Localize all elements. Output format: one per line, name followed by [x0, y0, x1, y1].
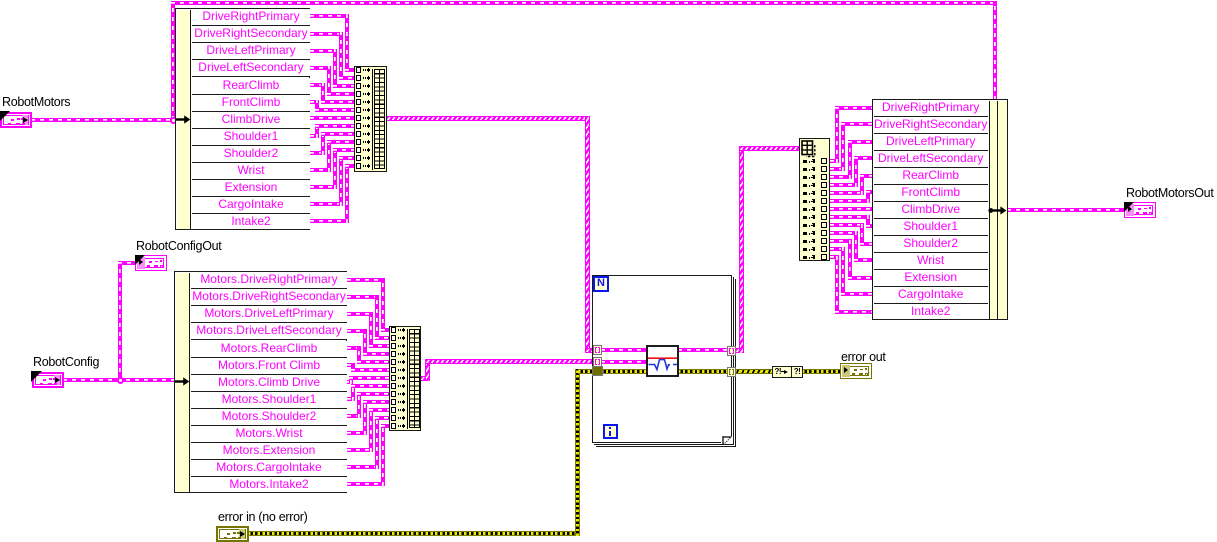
- wire top rail RobotMotors cluster to BundleByName: [171, 1, 997, 5]
- U1 cluster column: [177, 10, 191, 229]
- BN cluster column 1: [989, 101, 998, 319]
- IA row 7: [803, 208, 808, 211]
- U1 row DriveLeftSecondary: [192, 60, 310, 77]
- BN row Intake2: [874, 304, 988, 320]
- for loop count terminal N: [593, 276, 609, 292]
- indicator terminal RobotMotorsOut: [1124, 202, 1156, 218]
- build array node B1: [354, 66, 387, 172]
- wire IndexArray out 11 to Bundle Extension: [830, 239, 852, 243]
- label RobotMotors: [2, 96, 82, 109]
- IA row 5: [803, 192, 808, 195]
- U2 row Motors.Shoulder1: [191, 392, 347, 409]
- auto-index tunnel left 1 (motors array): [593, 345, 602, 355]
- U2 row Motors.Front Climb: [191, 358, 347, 375]
- merge errors node: [772, 366, 792, 378]
- U2 row Motors.DriveLeftPrimary: [191, 306, 347, 323]
- indicator terminal RobotConfigOut: [135, 255, 167, 271]
- U2 row Motors.Extension: [191, 443, 347, 460]
- BN row CargoIntake: [874, 287, 988, 304]
- U2 row Motors.CargoIntake: [191, 460, 347, 477]
- array wire BuildArray2 output to loop: [420, 376, 430, 381]
- wire BundleByName output to RobotMotorsOut: [1007, 208, 1125, 212]
- label error out: [841, 351, 901, 364]
- BN cluster column 2: [998, 101, 1007, 319]
- IA row 11: [803, 240, 808, 243]
- wire IndexArray out 8 to Bundle Shoulder1: [830, 215, 870, 219]
- wire Unbundle1 Shoulder1 to BuildArray1 input 8: [310, 134, 319, 138]
- wire IndexArray out 3 to Bundle DriveLeftPrimary: [830, 175, 852, 179]
- wire Unbundle1 FrontClimb to BuildArray1 input 6: [310, 100, 319, 104]
- wire Unbundle2 Motors.Front Climb to BuildArray2 input 6: [347, 363, 355, 367]
- array wire loop output to IndexArray: [735, 348, 744, 353]
- error wire tunnel to subVI: [601, 369, 647, 374]
- BN row DriveRightSecondary: [874, 117, 988, 134]
- wire Unbundle2 Motors.RearClimb to BuildArray2 input 5: [347, 346, 361, 350]
- BN row FrontClimb: [874, 185, 988, 202]
- U1 row Wrist: [192, 163, 310, 180]
- for loop corner fold: [721, 435, 733, 446]
- wire vertical junction up to RobotConfigOut: [118, 261, 122, 381]
- bundle-by-name node BN (RobotMotorsOut): [872, 99, 1008, 320]
- error input tunnel (solid): [592, 366, 603, 376]
- wire loop tunnel2 to subVI config input: [601, 360, 647, 364]
- U1 row Shoulder1: [192, 129, 310, 146]
- wire Unbundle1 Shoulder2 to BuildArray1 input 9: [310, 151, 325, 155]
- for loop iteration terminal i: [603, 424, 618, 439]
- wire Unbundle1 Intake2 to BuildArray1 input 13: [310, 219, 349, 223]
- wire IndexArray out 7 to Bundle ClimbDrive: [830, 207, 872, 211]
- BN row Shoulder2: [874, 236, 988, 253]
- auto-index tunnel left 2 (config array): [593, 357, 602, 367]
- wire IndexArray out 13 to Bundle Intake2: [830, 255, 839, 259]
- BN row DriveRightPrimary: [874, 100, 988, 117]
- IA row 10: [803, 232, 808, 235]
- U1 row FrontClimb: [192, 95, 310, 112]
- U2 row Motors.Climb Drive: [191, 375, 347, 392]
- wire Unbundle1 Wrist to BuildArray1 input 10: [310, 168, 331, 172]
- wire Unbundle1 DriveLeftSecondary to BuildArray1 input 4: [310, 66, 331, 70]
- unbundle-by-name node U1 (RobotMotors): [175, 8, 310, 230]
- label error in (no error): [218, 511, 328, 524]
- label RobotConfigOut: [136, 240, 236, 253]
- control terminal RobotMotors: [0, 112, 32, 128]
- wire Unbundle2 Motors.DriveLeftSecondary to BuildArray2 input 4: [347, 329, 367, 333]
- BN row Extension: [874, 270, 988, 287]
- wire IndexArray out 2 to Bundle DriveRightSecondary: [830, 167, 845, 171]
- error wire subVI to right tunnel: [678, 369, 728, 374]
- BN output arrow: [988, 204, 1007, 217]
- wire drop into BundleByName middle-input (top): [993, 1, 997, 100]
- control terminal RobotConfig: [32, 372, 64, 388]
- IA row 9: [803, 224, 808, 227]
- wire RobotMotors terminal to junction and Unbundle input: [31, 118, 175, 122]
- wire RobotConfig terminal to Unbundle2 input: [63, 378, 177, 382]
- wire Unbundle1 CargoIntake to BuildArray1 input 12: [310, 202, 343, 206]
- wire Unbundle2 Motors.Intake2 to BuildArray2 input 13: [347, 482, 385, 486]
- wire IndexArray out 9 to Bundle Shoulder2: [830, 223, 864, 227]
- U2 row Motors.Wrist: [191, 426, 347, 443]
- array wire BuildArray1 output to loop: [386, 116, 590, 121]
- wire Unbundle1 DriveRightSecondary to BuildArray1 input 2: [310, 32, 343, 36]
- U2 row Motors.DriveRightSecondary: [191, 289, 347, 306]
- IA row 6: [803, 200, 808, 203]
- IA row 2: [803, 168, 808, 171]
- control terminal error in: [216, 526, 249, 542]
- IA row 3: [803, 176, 808, 179]
- U2 row Motors.Intake2: [191, 477, 347, 493]
- index array node IA: [799, 138, 830, 261]
- U1 row Shoulder2: [192, 146, 310, 163]
- BN row RearClimb: [874, 168, 988, 185]
- U1 row DriveRightSecondary: [192, 26, 310, 43]
- wire IndexArray out 1 to Bundle DriveRightPrimary: [830, 159, 839, 163]
- U1 row CargoIntake: [192, 197, 310, 214]
- wire Unbundle1 ClimbDrive to BuildArray1 input 7: [310, 116, 354, 120]
- U1 row Extension: [192, 180, 310, 197]
- junction dot RobotConfig wire: [117, 377, 124, 384]
- indicator terminal error out: [840, 363, 872, 379]
- BN row DriveLeftSecondary: [874, 151, 988, 168]
- BN row Wrist: [874, 253, 988, 270]
- wire Unbundle1 Extension to BuildArray1 input 11: [310, 185, 337, 189]
- subVI MotorSetup (waveform icon): [646, 345, 679, 377]
- for loop frame: [592, 275, 732, 443]
- U2 row Motors.DriveLeftSecondary: [191, 323, 347, 340]
- U2 row Motors.DriveRightPrimary: [191, 272, 347, 289]
- error output tunnel right: [727, 367, 736, 377]
- wire Unbundle2 Motors.DriveLeftPrimary to BuildArray2 input 3: [347, 312, 373, 316]
- IA array glyph: [801, 140, 819, 161]
- wire Unbundle1 DriveLeftPrimary to BuildArray1 input 3: [310, 49, 337, 53]
- label RobotMotorsOut: [1126, 187, 1217, 200]
- IA row 8: [803, 216, 808, 219]
- wire Unbundle2 Motors.Shoulder1 to BuildArray2 input 8: [347, 397, 355, 401]
- wire Unbundle1 RearClimb to BuildArray1 input 5: [310, 83, 325, 87]
- wire Unbundle2 Motors.DriveRightSecondary to BuildArray2 input 2: [347, 295, 379, 299]
- U1 row Intake2: [192, 214, 310, 230]
- IA row 12: [803, 248, 808, 251]
- U2 row Motors.RearClimb: [191, 341, 347, 358]
- U1 row RearClimb: [192, 78, 310, 95]
- wire IndexArray out 12 to Bundle CargoIntake: [830, 247, 845, 251]
- wire subVI output to right tunnel: [678, 348, 728, 352]
- U1 input arrow: [176, 113, 191, 126]
- U1 row ClimbDrive: [192, 112, 310, 129]
- wire IndexArray out 5 to Bundle RearClimb: [830, 191, 864, 195]
- BN row Shoulder1: [874, 219, 988, 236]
- junction dot RobotMotors wire: [170, 117, 177, 124]
- error wire merge errors to error out: [802, 369, 841, 374]
- wire into RobotConfigOut indicator: [118, 261, 136, 265]
- wire Unbundle2 Motors.CargoIntake to BuildArray2 input 12: [347, 465, 379, 469]
- IA row 4: [803, 184, 808, 187]
- BN row ClimbDrive: [874, 202, 988, 219]
- wire Unbundle2 Motors.Wrist to BuildArray2 input 10: [347, 431, 367, 435]
- wire vertical from junction to top rail: [171, 1, 175, 120]
- unbundle-by-name node U2 (RobotConfig): [174, 271, 347, 493]
- wire Unbundle1 DriveRightPrimary to BuildArray1 input 1: [310, 14, 349, 18]
- U1 row DriveLeftPrimary: [192, 43, 310, 60]
- wire loop tunnel1 to subVI input: [601, 348, 647, 352]
- for loop border shadow 2: [596, 279, 736, 447]
- wire Unbundle2 Motors.DriveRightPrimary to BuildArray2 input 1: [347, 278, 385, 282]
- wire Unbundle2 Motors.Extension to BuildArray2 input 11: [347, 448, 373, 452]
- BN row DriveLeftPrimary: [874, 134, 988, 151]
- wire IndexArray out 4 to Bundle DriveLeftSecondary: [830, 183, 858, 187]
- wire Unbundle2 Motors.Shoulder2 to BuildArray2 input 9: [347, 414, 361, 418]
- U2 row Motors.Shoulder2: [191, 409, 347, 426]
- error wire from error in control: [248, 531, 578, 536]
- wire IndexArray out 6 to Bundle FrontClimb: [830, 199, 870, 203]
- for loop border shadow 1: [594, 277, 734, 445]
- auto-index tunnel right (motors out): [727, 346, 736, 356]
- IA row 13: [803, 256, 808, 259]
- build array node B2: [389, 326, 421, 431]
- wire IndexArray out 10 to Bundle Wrist: [830, 231, 858, 235]
- label RobotConfig: [33, 356, 113, 369]
- U2 input arrow: [175, 375, 190, 388]
- wire Unbundle2 Motors.Climb Drive to BuildArray2 input 7: [347, 380, 353, 384]
- IA row 1: [803, 160, 808, 163]
- U1 row DriveRightPrimary: [192, 9, 310, 26]
- error wire loop to merge errors: [734, 369, 773, 374]
- U2 cluster column: [176, 273, 190, 492]
